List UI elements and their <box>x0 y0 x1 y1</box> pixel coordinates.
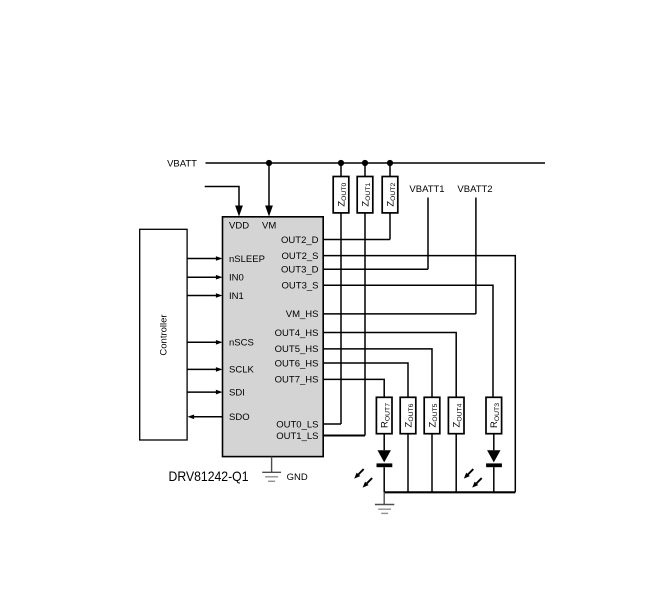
arrow SCLK <box>216 367 223 372</box>
junction ZOUT2 on VBATT <box>387 160 393 166</box>
wire controller to SDI <box>187 391 216 393</box>
wire OUT2_S <box>323 256 515 493</box>
svg-text:SDI: SDI <box>229 387 245 398</box>
svg-text:SCLK: SCLK <box>229 365 254 376</box>
junction ZOUT0 on VBATT <box>338 160 344 166</box>
wire OUT7_HS <box>323 379 384 397</box>
svg-text:IN1: IN1 <box>229 291 244 302</box>
svg-text:OUT4_HS: OUT4_HS <box>275 328 319 339</box>
svg-text:VBATT1: VBATT1 <box>409 184 444 195</box>
resistor ZOUT1 <box>357 177 373 213</box>
wire OUT1_LS <box>323 434 365 436</box>
wire controller to nSLEEP <box>187 258 216 260</box>
LED D2 anode triangle <box>487 450 500 462</box>
resistor ZOUT5 <box>424 397 440 433</box>
wire ZOUT2 to OUT2_D <box>389 213 391 240</box>
ground symbol at LED rail <box>375 492 394 513</box>
wire controller to nSCS <box>187 341 216 343</box>
resistor ZOUT4 <box>448 397 464 433</box>
arrow IN1 <box>216 293 223 298</box>
wire VBATT rail <box>206 162 546 164</box>
arrow SDO <box>188 415 195 420</box>
svg-text:nSLEEP: nSLEEP <box>229 254 265 265</box>
svg-text:GND: GND <box>287 472 308 483</box>
svg-text:OUT3_S: OUT3_S <box>282 281 319 292</box>
svg-text:nSCS: nSCS <box>229 338 254 349</box>
svg-text:OUT3_D: OUT3_D <box>281 265 319 276</box>
LED D1 emission arrow 1 <box>354 469 364 479</box>
wire OUT2_D <box>323 239 390 241</box>
wire LED D2 to gnd rail <box>493 467 495 492</box>
junction ZOUT1 on VBATT <box>362 160 368 166</box>
wire LED D1 to gnd rail <box>383 467 385 492</box>
wire OUT6_HS <box>323 363 408 397</box>
arrow nSCS <box>216 340 223 345</box>
wire controller to IN1 <box>187 295 216 297</box>
svg-text:OUT2_S: OUT2_S <box>282 251 319 262</box>
junction VM on VBATT <box>266 160 272 166</box>
svg-text:SDO: SDO <box>229 412 250 423</box>
wire ZOUT1 to OUT1_LS <box>364 213 366 436</box>
wire ZOUT4 to gnd rail <box>455 434 457 493</box>
arrow into VDD pin <box>235 206 243 217</box>
svg-text:OUT2_D: OUT2_D <box>281 235 319 246</box>
svg-text:VBATT2: VBATT2 <box>457 184 492 195</box>
ground symbol at IC GND pin <box>262 457 281 482</box>
svg-text:OUT1_LS: OUT1_LS <box>276 431 318 442</box>
wire SDO to controller <box>194 416 223 418</box>
resistor ROUT7 <box>376 397 392 433</box>
svg-text:VM: VM <box>262 221 276 232</box>
LED D2 emission arrow 2 <box>472 478 482 488</box>
svg-text:OUT0_LS: OUT0_LS <box>276 419 318 430</box>
wire controller to SCLK <box>187 368 216 370</box>
wire ZOUT5 to gnd rail <box>431 434 433 493</box>
block Controller <box>140 229 187 440</box>
resistor ZOUT0 lead top <box>340 163 342 177</box>
arrow IN0 <box>216 275 223 280</box>
wire VM feed <box>268 163 270 206</box>
LED D1 cathode bar <box>377 463 393 467</box>
svg-text:IN0: IN0 <box>229 273 244 284</box>
arrow SDI <box>216 390 223 395</box>
LED D2 cathode bar <box>486 463 502 467</box>
wire ZOUT6 to gnd rail <box>407 434 409 493</box>
wire OUT3_D <box>323 268 428 270</box>
wire OUT3_S <box>323 285 493 397</box>
arrow nSLEEP <box>216 256 223 261</box>
svg-text:DRV81242-Q1: DRV81242-Q1 <box>169 468 249 484</box>
svg-text:Controller: Controller <box>159 314 170 355</box>
wire VBATT2 down <box>475 198 477 314</box>
svg-text:OUT5_HS: OUT5_HS <box>275 344 319 355</box>
wire ZOUT0 to OUT0_LS <box>340 213 342 424</box>
LED D1 emission arrow 2 <box>363 478 373 488</box>
LED D2 emission arrow 1 <box>464 469 474 479</box>
wire OUT5_HS <box>323 349 432 397</box>
IC U1 DRV81242-Q1 body <box>223 217 324 457</box>
wire ground rail <box>384 491 515 493</box>
wire ROUT3 to LED D2 <box>493 434 495 451</box>
svg-text:VM_HS: VM_HS <box>286 309 319 320</box>
svg-text:VBATT: VBATT <box>167 159 197 170</box>
svg-text:OUT6_HS: OUT6_HS <box>275 358 319 369</box>
resistor ZOUT2 <box>382 177 398 213</box>
svg-text:OUT7_HS: OUT7_HS <box>275 375 319 386</box>
svg-text:VDD: VDD <box>229 221 249 232</box>
resistor ZOUT0 <box>333 177 349 213</box>
wire OUT0_LS <box>323 423 341 425</box>
wire ROUT7 to LED D1 <box>383 434 385 451</box>
resistor ROUT3 <box>486 397 502 433</box>
resistor ZOUT2 lead top <box>389 163 391 177</box>
wire VBATT1 down <box>427 198 429 270</box>
wire OUT4_HS <box>323 333 456 398</box>
resistor ZOUT6 <box>400 397 416 433</box>
wire controller to IN0 <box>187 276 216 278</box>
resistor ZOUT1 lead top <box>364 163 366 177</box>
LED D1 anode triangle <box>378 450 391 462</box>
wire VM_HS <box>323 313 476 315</box>
wire VDD feed <box>205 187 239 206</box>
arrow into VM pin <box>265 206 273 217</box>
